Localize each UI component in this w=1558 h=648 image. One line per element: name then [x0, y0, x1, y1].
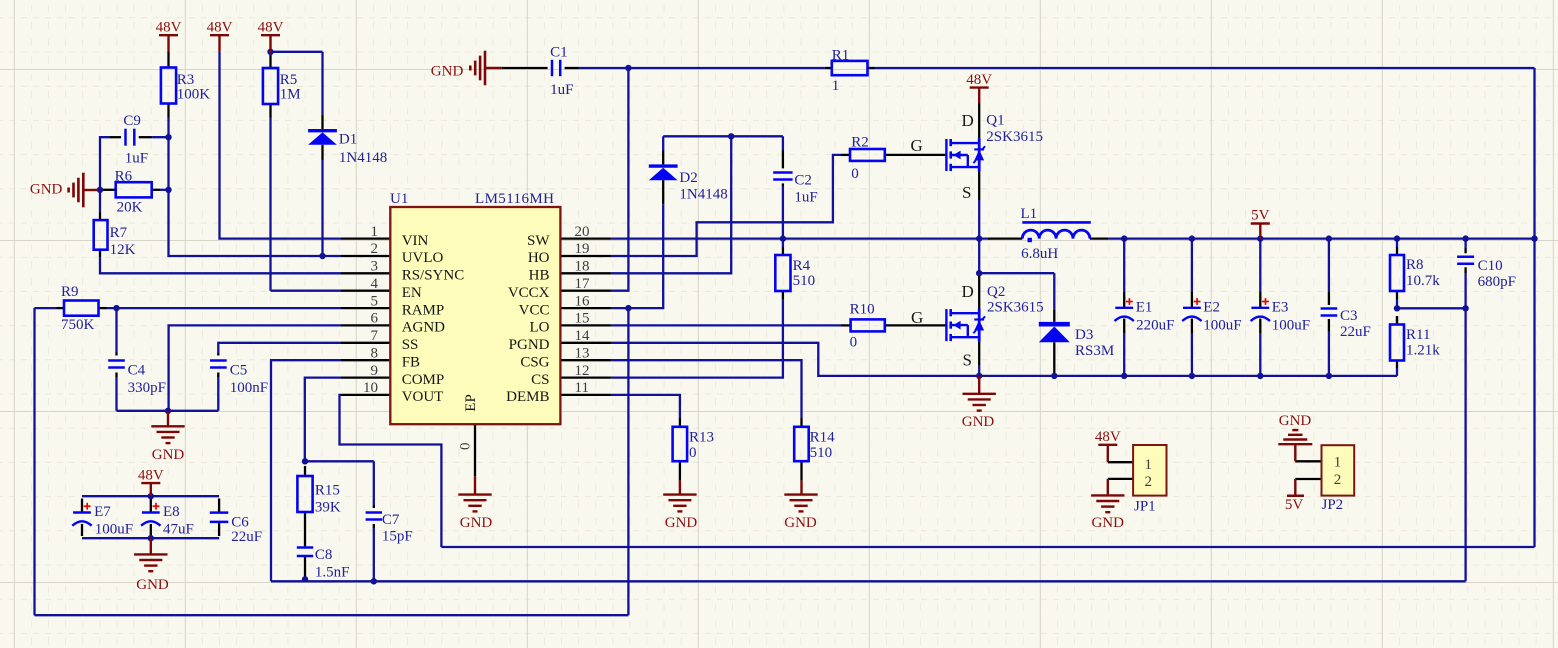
svg-text:C6: C6 — [231, 514, 249, 530]
svg-text:7: 7 — [371, 328, 379, 344]
svg-text:GND: GND — [431, 64, 464, 80]
svg-text:1uF: 1uF — [794, 189, 817, 205]
svg-text:E2: E2 — [1203, 300, 1220, 316]
svg-text:2SK3615: 2SK3615 — [987, 300, 1044, 316]
svg-text:20K: 20K — [117, 199, 143, 215]
svg-text:10: 10 — [363, 380, 378, 396]
svg-text:100uF: 100uF — [1203, 318, 1241, 334]
svg-text:100uF: 100uF — [1272, 318, 1310, 334]
svg-text:VCC: VCC — [519, 302, 550, 318]
svg-text:E3: E3 — [1272, 300, 1289, 316]
svg-text:1N4148: 1N4148 — [339, 150, 387, 166]
svg-text:100nF: 100nF — [230, 380, 268, 396]
svg-text:1.21k: 1.21k — [1406, 343, 1440, 359]
svg-text:48V: 48V — [258, 19, 284, 35]
svg-text:R8: R8 — [1406, 257, 1424, 273]
svg-text:47uF: 47uF — [163, 521, 194, 537]
svg-text:6.8uH: 6.8uH — [1021, 246, 1058, 262]
svg-text:0: 0 — [458, 443, 474, 451]
svg-text:1: 1 — [371, 224, 379, 240]
svg-text:20: 20 — [575, 224, 590, 240]
svg-text:JP1: JP1 — [1134, 499, 1156, 515]
svg-text:DEMB: DEMB — [506, 389, 549, 405]
svg-text:2: 2 — [1145, 474, 1153, 490]
svg-text:15pF: 15pF — [382, 529, 413, 545]
svg-text:16: 16 — [575, 293, 591, 309]
svg-text:C5: C5 — [230, 362, 248, 378]
svg-text:AGND: AGND — [402, 320, 445, 336]
svg-text:C1: C1 — [550, 44, 568, 60]
svg-text:2: 2 — [1334, 472, 1342, 488]
svg-text:4: 4 — [371, 276, 379, 292]
svg-text:D: D — [962, 282, 974, 301]
svg-text:L1: L1 — [1021, 206, 1038, 222]
svg-text:12: 12 — [575, 363, 590, 379]
svg-text:100uF: 100uF — [95, 521, 133, 537]
svg-text:R2: R2 — [851, 135, 869, 151]
svg-text:R11: R11 — [1406, 327, 1430, 343]
svg-text:HB: HB — [529, 268, 550, 284]
svg-text:S: S — [962, 183, 971, 202]
svg-text:5V: 5V — [1251, 208, 1270, 224]
svg-text:10.7k: 10.7k — [1406, 273, 1440, 289]
svg-text:GND: GND — [152, 447, 185, 463]
svg-text:GND: GND — [962, 414, 995, 430]
svg-text:Q2: Q2 — [987, 284, 1005, 300]
svg-text:1: 1 — [1334, 455, 1342, 471]
svg-text:R4: R4 — [793, 258, 811, 274]
svg-text:5V: 5V — [1285, 497, 1304, 513]
svg-text:C2: C2 — [794, 173, 812, 189]
svg-text:22uF: 22uF — [231, 529, 262, 545]
svg-text:0: 0 — [851, 166, 859, 182]
svg-text:CS: CS — [531, 372, 549, 388]
svg-text:SS: SS — [402, 337, 419, 353]
svg-text:R6: R6 — [115, 169, 133, 185]
svg-text:E1: E1 — [1136, 300, 1153, 316]
svg-text:UVLO: UVLO — [402, 250, 444, 266]
svg-text:48V: 48V — [207, 19, 233, 35]
svg-text:RS/SYNC: RS/SYNC — [402, 268, 465, 284]
svg-text:100K: 100K — [177, 86, 211, 102]
svg-text:1M: 1M — [280, 86, 301, 102]
svg-text:GND: GND — [665, 515, 698, 531]
svg-text:EP: EP — [463, 394, 479, 412]
svg-text:D1: D1 — [339, 132, 357, 148]
svg-text:3: 3 — [371, 259, 379, 275]
svg-text:GND: GND — [1279, 413, 1312, 429]
svg-text:E8: E8 — [163, 504, 180, 520]
svg-text:E7: E7 — [94, 504, 111, 520]
svg-text:14: 14 — [575, 328, 591, 344]
svg-text:G: G — [911, 308, 923, 327]
svg-text:2: 2 — [371, 241, 379, 257]
svg-text:13: 13 — [575, 345, 590, 361]
svg-text:GND: GND — [136, 577, 169, 593]
svg-text:R14: R14 — [810, 430, 836, 446]
svg-text:0: 0 — [689, 445, 697, 461]
svg-text:JP2: JP2 — [1322, 497, 1344, 513]
svg-text:C9: C9 — [123, 113, 141, 129]
svg-text:GND: GND — [1091, 515, 1124, 531]
svg-text:8: 8 — [371, 345, 379, 361]
svg-text:1uF: 1uF — [550, 82, 573, 98]
svg-text:330pF: 330pF — [128, 380, 166, 396]
svg-text:FB: FB — [402, 354, 420, 370]
svg-text:D3: D3 — [1075, 327, 1093, 343]
svg-text:15: 15 — [575, 311, 590, 327]
svg-text:C4: C4 — [128, 362, 146, 378]
svg-text:C3: C3 — [1340, 308, 1358, 324]
svg-text:COMP: COMP — [402, 372, 445, 388]
svg-text:R1: R1 — [832, 48, 850, 64]
svg-text:510: 510 — [793, 273, 816, 289]
svg-text:19: 19 — [575, 241, 590, 257]
svg-text:1: 1 — [832, 78, 840, 94]
svg-text:CSG: CSG — [520, 354, 549, 370]
svg-text:R7: R7 — [110, 225, 128, 241]
svg-text:R9: R9 — [61, 284, 79, 300]
svg-text:U1: U1 — [390, 191, 408, 207]
svg-text:750K: 750K — [61, 317, 95, 333]
svg-text:GND: GND — [784, 515, 817, 531]
svg-text:VOUT: VOUT — [402, 389, 444, 405]
svg-text:1N4148: 1N4148 — [679, 187, 727, 203]
svg-text:LO: LO — [530, 320, 550, 336]
svg-text:SW: SW — [527, 233, 550, 249]
svg-text:D: D — [962, 111, 974, 130]
svg-text:C10: C10 — [1478, 258, 1503, 274]
svg-text:12K: 12K — [110, 242, 136, 258]
svg-text:0: 0 — [850, 335, 858, 351]
svg-text:1uF: 1uF — [125, 150, 148, 166]
svg-text:1.5nF: 1.5nF — [315, 564, 350, 580]
svg-text:R13: R13 — [689, 430, 714, 446]
svg-text:17: 17 — [575, 276, 591, 292]
svg-text:VIN: VIN — [402, 233, 429, 249]
svg-text:9: 9 — [371, 363, 379, 379]
svg-text:48V: 48V — [1095, 429, 1121, 445]
svg-text:48V: 48V — [156, 19, 182, 35]
svg-text:HO: HO — [528, 250, 550, 266]
svg-text:680pF: 680pF — [1478, 274, 1516, 290]
svg-text:R15: R15 — [315, 483, 340, 499]
svg-text:D2: D2 — [679, 170, 697, 186]
svg-text:18: 18 — [575, 259, 590, 275]
svg-text:11: 11 — [575, 380, 589, 396]
svg-text:RAMP: RAMP — [402, 302, 445, 318]
svg-text:2SK3615: 2SK3615 — [986, 129, 1043, 145]
svg-text:C7: C7 — [382, 512, 400, 528]
svg-text:510: 510 — [810, 445, 833, 461]
svg-text:R10: R10 — [850, 301, 875, 317]
svg-text:220uF: 220uF — [1136, 318, 1174, 334]
svg-text:48V: 48V — [966, 72, 992, 88]
svg-text:G: G — [911, 136, 923, 155]
svg-text:LM5116MH: LM5116MH — [475, 191, 554, 207]
svg-text:39K: 39K — [315, 500, 341, 516]
svg-text:GND: GND — [30, 181, 63, 197]
svg-text:RS3M: RS3M — [1075, 343, 1114, 359]
svg-text:PGND: PGND — [509, 337, 550, 353]
svg-text:EN: EN — [402, 285, 422, 301]
svg-text:6: 6 — [371, 311, 379, 327]
svg-text:VCCX: VCCX — [508, 285, 550, 301]
svg-text:C8: C8 — [315, 547, 333, 563]
svg-text:GND: GND — [460, 515, 493, 531]
svg-text:48V: 48V — [138, 467, 164, 483]
svg-text:5: 5 — [371, 293, 379, 309]
svg-text:1: 1 — [1145, 457, 1153, 473]
svg-text:22uF: 22uF — [1340, 324, 1371, 340]
svg-text:Q1: Q1 — [986, 113, 1004, 129]
svg-text:S: S — [963, 351, 972, 370]
